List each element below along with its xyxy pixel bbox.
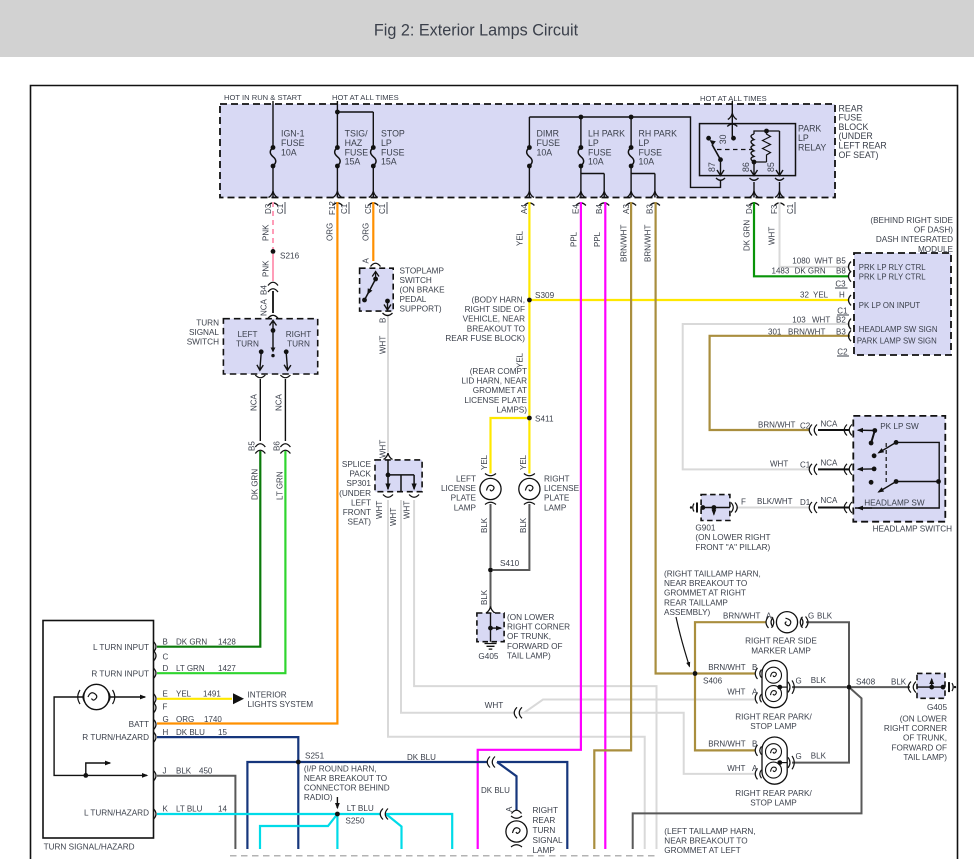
svg-text:RIGHT SIDE OF: RIGHT SIDE OF	[465, 305, 525, 314]
svg-text:ASSEMBLY): ASSEMBLY)	[664, 608, 711, 617]
svg-text:1491: 1491	[203, 690, 221, 699]
svg-text:S406: S406	[703, 677, 723, 686]
svg-text:LEFT: LEFT	[456, 475, 476, 484]
svg-text:(RIGHT TAILLAMP HARN,: (RIGHT TAILLAMP HARN,	[664, 570, 761, 579]
svg-text:450: 450	[199, 767, 213, 776]
svg-text:F12: F12	[328, 201, 337, 215]
svg-text:LIGHTS SYSTEM: LIGHTS SYSTEM	[248, 700, 314, 709]
svg-text:L TURN/HAZARD: L TURN/HAZARD	[84, 809, 149, 818]
svg-text:BLK: BLK	[811, 752, 827, 761]
svg-text:WHT: WHT	[485, 701, 504, 710]
svg-text:S250: S250	[345, 817, 365, 826]
svg-text:TURN: TURN	[236, 340, 259, 349]
svg-text:SWITCH: SWITCH	[400, 276, 432, 285]
svg-text:WHT: WHT	[768, 227, 777, 245]
svg-text:30: 30	[718, 134, 728, 144]
svg-text:NCA: NCA	[275, 393, 284, 411]
svg-text:BREAKOUT TO: BREAKOUT TO	[467, 324, 525, 333]
svg-text:OF TRUNK,: OF TRUNK,	[507, 632, 551, 641]
svg-text:A: A	[362, 258, 371, 264]
svg-text:LT BLU: LT BLU	[347, 804, 374, 813]
svg-text:BRN/WHT: BRN/WHT	[788, 328, 825, 337]
svg-text:1483: 1483	[772, 267, 790, 276]
svg-text:MARKER LAMP: MARKER LAMP	[751, 646, 811, 655]
svg-text:1080: 1080	[792, 257, 810, 266]
svg-text:C1: C1	[786, 203, 795, 214]
svg-text:TURN: TURN	[533, 826, 556, 835]
svg-text:TURN: TURN	[196, 319, 219, 328]
svg-text:A: A	[752, 688, 758, 697]
svg-text:NCA: NCA	[250, 393, 259, 411]
svg-text:D: D	[163, 664, 169, 673]
svg-text:LT BLU: LT BLU	[176, 805, 203, 814]
svg-text:WHT: WHT	[379, 440, 388, 458]
svg-text:YEL: YEL	[519, 454, 528, 470]
svg-text:10A: 10A	[281, 147, 297, 157]
svg-text:DASH INTEGRATED: DASH INTEGRATED	[876, 235, 953, 244]
svg-text:G: G	[796, 677, 802, 686]
svg-text:WHT: WHT	[812, 316, 830, 325]
svg-text:10A: 10A	[537, 147, 553, 157]
svg-text:BLK/WHT: BLK/WHT	[757, 497, 793, 506]
svg-text:PLATE: PLATE	[544, 494, 570, 503]
svg-text:A: A	[505, 806, 514, 812]
svg-text:HEADLAMP SW SIGN: HEADLAMP SW SIGN	[859, 325, 938, 334]
svg-text:B6: B6	[273, 441, 282, 451]
svg-text:B8: B8	[836, 267, 846, 276]
svg-text:DK BLU: DK BLU	[176, 728, 205, 737]
svg-text:WHT: WHT	[727, 688, 745, 697]
svg-text:BRN/WHT: BRN/WHT	[620, 225, 629, 262]
svg-text:HOT AT ALL TIMES: HOT AT ALL TIMES	[332, 93, 399, 102]
svg-text:FRONT: FRONT	[343, 508, 371, 517]
svg-text:C2: C2	[837, 348, 848, 357]
svg-text:RELAY: RELAY	[798, 142, 826, 152]
svg-text:DK GRN: DK GRN	[251, 469, 260, 500]
svg-text:10A: 10A	[639, 157, 655, 167]
svg-text:32: 32	[800, 291, 809, 300]
svg-text:B: B	[379, 318, 388, 323]
svg-text:C3: C3	[835, 280, 846, 289]
svg-text:F: F	[741, 498, 746, 507]
svg-text:ORG: ORG	[326, 223, 335, 241]
svg-text:LT GRN: LT GRN	[176, 664, 205, 673]
svg-text:BRN/WHT: BRN/WHT	[758, 421, 795, 430]
svg-text:BRN/WHT: BRN/WHT	[708, 663, 745, 672]
svg-text:VEHICLE, NEAR: VEHICLE, NEAR	[463, 315, 525, 324]
svg-text:PNK: PNK	[262, 260, 271, 277]
svg-text:RIGHT: RIGHT	[533, 806, 558, 815]
svg-text:DK BLU: DK BLU	[481, 786, 510, 795]
svg-text:DK GRN: DK GRN	[795, 267, 826, 276]
svg-text:RIGHT REAR PARK/: RIGHT REAR PARK/	[735, 789, 812, 798]
svg-text:STOP LAMP: STOP LAMP	[750, 722, 797, 731]
svg-text:HOT IN RUN & START: HOT IN RUN & START	[224, 93, 302, 102]
svg-text:15A: 15A	[381, 157, 397, 167]
svg-text:REAR: REAR	[533, 816, 556, 825]
svg-text:PNK: PNK	[262, 224, 271, 241]
svg-text:(BEHIND RIGHT SIDE: (BEHIND RIGHT SIDE	[870, 216, 953, 225]
svg-text:HOT AT ALL TIMES: HOT AT ALL TIMES	[700, 94, 767, 103]
svg-text:NEAR BREAKOUT TO: NEAR BREAKOUT TO	[664, 579, 747, 588]
svg-text:B: B	[163, 638, 168, 647]
svg-text:YEL: YEL	[480, 454, 489, 470]
svg-text:BLK: BLK	[519, 517, 528, 533]
svg-text:STOP LAMP: STOP LAMP	[750, 799, 797, 808]
svg-text:TAIL LAMP): TAIL LAMP)	[507, 651, 551, 660]
svg-text:BLK: BLK	[176, 767, 192, 776]
svg-text:F: F	[163, 703, 168, 712]
svg-text:H: H	[163, 728, 169, 737]
svg-text:SIGNAL: SIGNAL	[533, 836, 563, 845]
svg-text:LAMP: LAMP	[544, 503, 567, 512]
svg-text:D4: D4	[745, 203, 754, 214]
svg-text:1428: 1428	[218, 638, 236, 647]
svg-text:GROMMET AT LEFT: GROMMET AT LEFT	[664, 846, 740, 855]
svg-text:A: A	[752, 764, 758, 773]
svg-text:R TURN/HAZARD: R TURN/HAZARD	[82, 733, 149, 742]
svg-text:S411: S411	[535, 415, 554, 424]
svg-text:PRK LP RLY CTRL: PRK LP RLY CTRL	[859, 263, 926, 272]
svg-text:LID HARN, NEAR: LID HARN, NEAR	[461, 377, 527, 386]
svg-text:(ON LOWER: (ON LOWER	[900, 715, 947, 724]
svg-text:LAMPS): LAMPS)	[497, 405, 528, 414]
svg-text:TURN SIGNAL/HAZARD: TURN SIGNAL/HAZARD	[44, 843, 135, 852]
svg-text:LAMP: LAMP	[533, 846, 556, 855]
svg-text:WHT: WHT	[403, 501, 412, 519]
svg-text:YEL: YEL	[516, 352, 525, 368]
svg-text:L TURN INPUT: L TURN INPUT	[93, 643, 149, 652]
svg-text:LEFT: LEFT	[351, 498, 371, 507]
svg-text:FORWARD OF: FORWARD OF	[507, 642, 563, 651]
svg-text:PPL: PPL	[570, 231, 579, 247]
svg-text:SPLICE: SPLICE	[342, 460, 372, 469]
svg-text:B5: B5	[836, 257, 846, 266]
svg-text:OF SEAT): OF SEAT)	[839, 150, 879, 160]
svg-text:HEADLAMP SW: HEADLAMP SW	[864, 499, 925, 508]
svg-text:S251: S251	[305, 752, 325, 761]
svg-text:REAR TAILLAMP: REAR TAILLAMP	[664, 598, 728, 607]
svg-text:Fig 2: Exterior Lamps Circuit: Fig 2: Exterior Lamps Circuit	[374, 22, 579, 40]
svg-text:ORG: ORG	[362, 223, 371, 241]
svg-text:NEAR BREAKOUT TO: NEAR BREAKOUT TO	[304, 774, 387, 783]
svg-text:K: K	[163, 805, 169, 814]
svg-text:G901: G901	[695, 523, 715, 532]
svg-text:NCA: NCA	[821, 420, 839, 429]
svg-text:TURN: TURN	[287, 340, 310, 349]
svg-text:RIGHT: RIGHT	[544, 475, 569, 484]
svg-text:NCA: NCA	[821, 459, 839, 468]
svg-text:(ON LOWER RIGHT: (ON LOWER RIGHT	[695, 533, 770, 542]
svg-text:LEFT: LEFT	[237, 330, 257, 339]
svg-text:ORG: ORG	[176, 715, 194, 724]
svg-text:FORWARD OF: FORWARD OF	[892, 743, 948, 752]
svg-text:B4: B4	[260, 285, 269, 295]
svg-text:WHT: WHT	[770, 460, 788, 469]
svg-text:YEL: YEL	[516, 230, 525, 246]
svg-text:PRK LP RLY CTRL: PRK LP RLY CTRL	[859, 273, 926, 282]
svg-text:B2: B2	[836, 316, 846, 325]
svg-text:LICENSE: LICENSE	[441, 484, 477, 493]
svg-text:LAMP: LAMP	[454, 503, 477, 512]
svg-text:BLK: BLK	[480, 517, 489, 533]
svg-text:14: 14	[218, 805, 227, 814]
svg-text:WHT: WHT	[379, 336, 388, 354]
svg-text:G405: G405	[927, 703, 947, 712]
svg-text:RIGHT REAR SIDE: RIGHT REAR SIDE	[745, 637, 817, 646]
svg-text:PPL: PPL	[593, 231, 602, 247]
svg-text:NCA: NCA	[821, 496, 839, 505]
svg-text:BLK: BLK	[891, 678, 907, 687]
svg-text:301: 301	[768, 328, 782, 337]
svg-text:(I/P ROUND HARN,: (I/P ROUND HARN,	[304, 765, 377, 774]
svg-text:J: J	[163, 767, 167, 776]
svg-text:DK GRN: DK GRN	[743, 220, 752, 251]
svg-text:E4: E4	[572, 204, 581, 214]
svg-text:C1: C1	[837, 307, 848, 316]
svg-text:B: B	[752, 740, 757, 749]
svg-text:TAIL LAMP): TAIL LAMP)	[903, 753, 947, 762]
svg-text:WHT: WHT	[727, 764, 745, 773]
svg-text:GROMMET AT: GROMMET AT	[473, 386, 527, 395]
svg-text:(BODY HARN,: (BODY HARN,	[471, 296, 525, 305]
svg-text:B4: B4	[595, 204, 604, 214]
svg-text:YEL: YEL	[813, 291, 829, 300]
svg-text:86: 86	[741, 162, 751, 172]
svg-text:G: G	[808, 612, 814, 621]
svg-text:RADIO): RADIO)	[304, 793, 333, 802]
svg-text:1740: 1740	[204, 715, 222, 724]
svg-text:WHT: WHT	[389, 508, 398, 526]
svg-text:G405: G405	[478, 652, 498, 661]
svg-text:(ON LOWER: (ON LOWER	[507, 613, 554, 622]
svg-text:(UNDER: (UNDER	[339, 489, 371, 498]
svg-text:G: G	[796, 752, 802, 761]
svg-text:LICENSE: LICENSE	[544, 484, 580, 493]
svg-text:B3: B3	[836, 328, 846, 337]
svg-text:RIGHT CORNER: RIGHT CORNER	[507, 623, 570, 632]
svg-text:FRONT "A" PILLAR): FRONT "A" PILLAR)	[695, 543, 770, 552]
svg-text:SUPPORT): SUPPORT)	[400, 305, 442, 314]
svg-text:OF TRUNK,: OF TRUNK,	[903, 734, 947, 743]
svg-text:15A: 15A	[345, 157, 361, 167]
svg-text:H: H	[839, 291, 845, 300]
svg-text:CONNECTOR BEHIND: CONNECTOR BEHIND	[304, 784, 390, 793]
svg-text:PEDAL: PEDAL	[400, 295, 427, 304]
svg-text:SEAT): SEAT)	[347, 518, 371, 527]
svg-text:PLATE: PLATE	[451, 494, 477, 503]
svg-text:SIGNAL: SIGNAL	[189, 328, 219, 337]
svg-text:WHT: WHT	[375, 501, 384, 519]
svg-text:GROMMET AT RIGHT: GROMMET AT RIGHT	[664, 589, 746, 598]
svg-text:LT GRN: LT GRN	[276, 471, 285, 500]
svg-text:PK LP ON INPUT: PK LP ON INPUT	[859, 301, 921, 310]
svg-text:103: 103	[792, 316, 806, 325]
svg-text:F3: F3	[770, 204, 779, 214]
svg-text:BLK: BLK	[811, 676, 827, 685]
svg-text:HEADLAMP SWITCH: HEADLAMP SWITCH	[873, 525, 953, 534]
svg-text:NCA: NCA	[260, 298, 269, 316]
svg-text:INTERIOR: INTERIOR	[248, 691, 287, 700]
svg-text:NEAR BREAKOUT TO: NEAR BREAKOUT TO	[664, 837, 747, 846]
svg-text:DK GRN: DK GRN	[176, 638, 207, 647]
svg-text:STOPLAMP: STOPLAMP	[400, 267, 445, 276]
svg-text:85: 85	[766, 162, 776, 172]
svg-text:A: A	[766, 612, 772, 621]
svg-text:LICENSE PLATE: LICENSE PLATE	[464, 396, 527, 405]
svg-text:C1: C1	[340, 203, 349, 214]
svg-text:BRN/WHT: BRN/WHT	[723, 612, 760, 621]
svg-text:BATT: BATT	[129, 720, 149, 729]
svg-text:BRN/WHT: BRN/WHT	[644, 225, 653, 262]
svg-text:87: 87	[707, 162, 717, 172]
svg-text:B: B	[752, 663, 757, 672]
svg-text:S410: S410	[500, 559, 520, 568]
svg-text:10A: 10A	[588, 157, 604, 167]
svg-text:OF DASH): OF DASH)	[914, 226, 953, 235]
svg-text:S216: S216	[280, 252, 300, 261]
svg-text:D3: D3	[264, 203, 273, 214]
svg-text:BLK: BLK	[817, 612, 833, 621]
svg-text:(LEFT TAILLAMP HARN,: (LEFT TAILLAMP HARN,	[664, 827, 755, 836]
svg-text:WHT: WHT	[815, 257, 833, 266]
svg-text:BLK: BLK	[480, 589, 489, 605]
svg-text:RIGHT REAR PARK/: RIGHT REAR PARK/	[735, 713, 812, 722]
svg-text:S408: S408	[856, 678, 876, 687]
svg-text:E: E	[163, 690, 168, 699]
svg-text:RIGHT CORNER: RIGHT CORNER	[884, 724, 947, 733]
svg-text:BRN/WHT: BRN/WHT	[708, 740, 745, 749]
svg-text:SP301: SP301	[346, 479, 371, 488]
svg-text:YEL: YEL	[176, 690, 192, 699]
svg-text:S309: S309	[535, 291, 555, 300]
svg-text:C1: C1	[276, 203, 285, 214]
svg-text:PARK LAMP SW SIGN: PARK LAMP SW SIGN	[857, 337, 937, 346]
svg-text:B3: B3	[646, 204, 655, 214]
svg-text:R TURN INPUT: R TURN INPUT	[91, 670, 149, 679]
svg-text:15: 15	[218, 728, 227, 737]
svg-text:PACK: PACK	[349, 470, 371, 479]
svg-text:C5: C5	[364, 203, 373, 214]
svg-text:A4: A4	[520, 204, 529, 214]
svg-text:A3: A3	[622, 204, 631, 214]
svg-text:C: C	[163, 653, 169, 662]
svg-text:B5: B5	[248, 441, 257, 451]
svg-text:G: G	[163, 715, 169, 724]
svg-text:C1: C1	[378, 203, 387, 214]
svg-text:RIGHT: RIGHT	[286, 330, 311, 339]
svg-text:SWITCH: SWITCH	[187, 338, 219, 347]
svg-text:REAR FUSE BLOCK): REAR FUSE BLOCK)	[445, 334, 525, 343]
svg-text:(ON BRAKE: (ON BRAKE	[400, 286, 446, 295]
svg-text:DK BLU: DK BLU	[407, 753, 436, 762]
svg-text:1427: 1427	[218, 664, 236, 673]
svg-text:PK LP SW: PK LP SW	[880, 422, 919, 431]
